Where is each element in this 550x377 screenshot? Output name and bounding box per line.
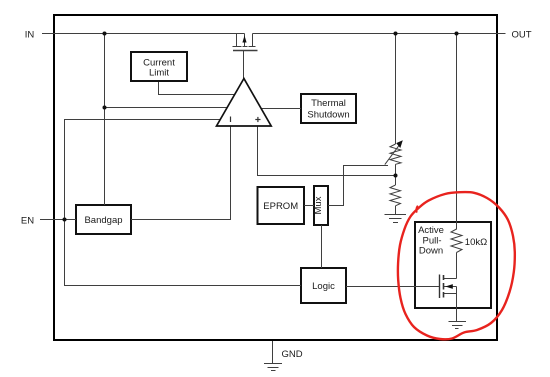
svg-text:GND: GND — [281, 349, 302, 360]
svg-text:OUT: OUT — [511, 30, 531, 41]
svg-text:EN: EN — [21, 216, 34, 227]
svg-text:10kΩ: 10kΩ — [465, 237, 487, 248]
svg-text:Thermal: Thermal — [311, 98, 346, 109]
svg-text:Bandgap: Bandgap — [84, 215, 122, 226]
svg-text:EPROM: EPROM — [263, 201, 298, 212]
svg-text:Mux: Mux — [313, 196, 324, 214]
svg-text:Logic: Logic — [312, 281, 335, 292]
svg-text:Limit: Limit — [149, 68, 169, 79]
svg-text:Down: Down — [419, 246, 443, 257]
svg-text:Active: Active — [418, 225, 444, 236]
svg-text:Shutdown: Shutdown — [307, 110, 349, 121]
svg-text:IN: IN — [25, 30, 35, 41]
